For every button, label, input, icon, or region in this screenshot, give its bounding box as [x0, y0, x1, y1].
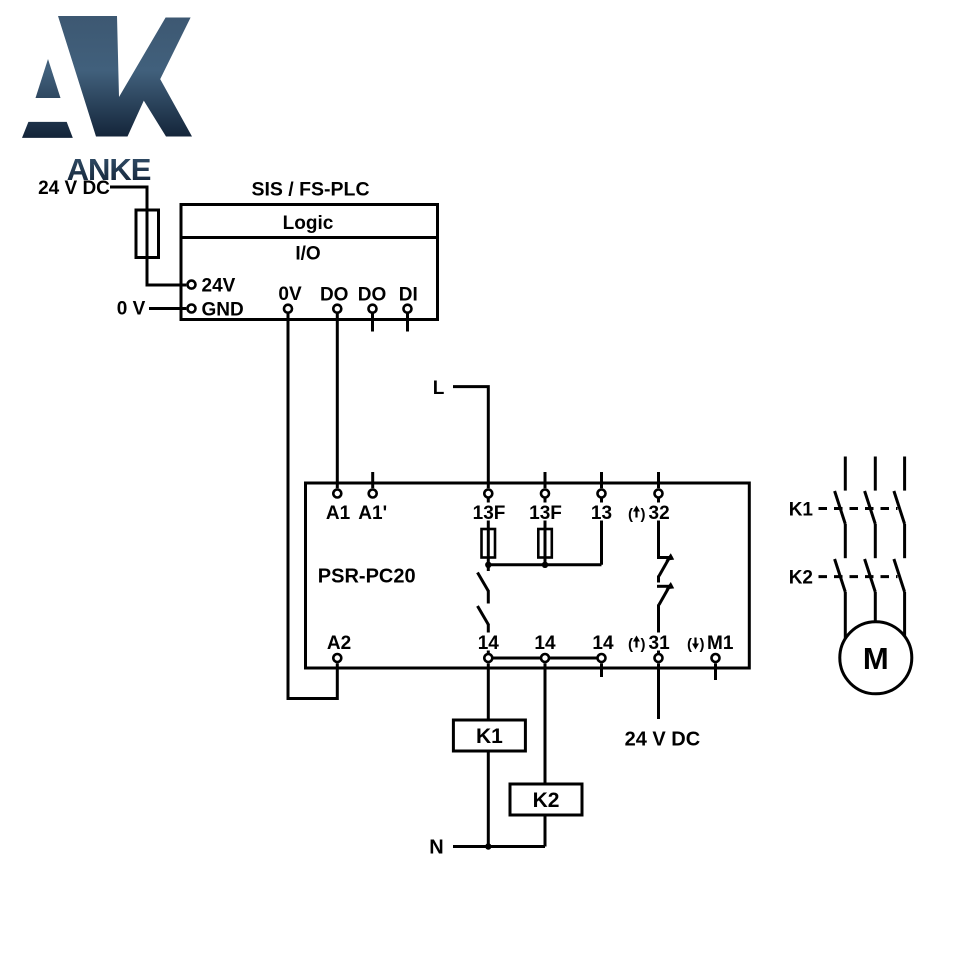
- terminal A2: [333, 654, 341, 662]
- svg-text:14: 14: [478, 633, 500, 654]
- svg-text:K2: K2: [533, 789, 560, 812]
- three-phase line 2 top: [874, 457, 877, 491]
- svg-text:GND: GND: [202, 299, 244, 320]
- fuse F1: [136, 210, 159, 258]
- svg-text:(: (: [687, 636, 692, 653]
- ANKE logo A-triangle: [36, 59, 61, 98]
- PLC box: [181, 205, 438, 320]
- svg-text:A1: A1: [326, 503, 351, 524]
- svg-text:DI: DI: [399, 284, 418, 305]
- wire fuse to 24V terminal: [147, 284, 186, 286]
- stub 13F2: [544, 472, 547, 488]
- svg-text:DO: DO: [358, 284, 387, 305]
- svg-text:K1: K1: [789, 499, 814, 520]
- aux contact 2 blade: [659, 586, 670, 605]
- terminal 24V: [188, 281, 196, 289]
- svg-text:13: 13: [591, 503, 612, 524]
- wire 13F2 to fuse: [544, 499, 547, 566]
- aux contact 1 tick: [657, 556, 673, 559]
- svg-text:N: N: [429, 837, 443, 859]
- PSR-PC20 box: [306, 483, 750, 668]
- svg-text:31: 31: [649, 633, 671, 654]
- contactor K2 blades: [835, 559, 846, 592]
- wire DO to A1: [336, 313, 339, 488]
- terminal 14c: [598, 654, 606, 662]
- terminal 32: [655, 490, 663, 498]
- phase lower segments: [844, 592, 847, 640]
- terminal 0V: [284, 305, 292, 313]
- wire 31 to 24VDC: [657, 663, 660, 719]
- terminal 31: [655, 654, 663, 662]
- wire 0V to A2 loop: [288, 313, 337, 699]
- label background plates: [471, 503, 507, 521]
- svg-text:): ): [700, 636, 705, 653]
- relay coil K1: [453, 720, 525, 751]
- contact blade 2: [478, 606, 489, 625]
- svg-text:M1: M1: [707, 633, 734, 654]
- svg-text:0V: 0V: [278, 284, 302, 305]
- contact blade 1 (safety output): [478, 573, 489, 592]
- terminal DI: [404, 305, 412, 313]
- svg-text:14: 14: [534, 633, 556, 654]
- aux contact 1 arrow: [666, 553, 675, 560]
- terminal 13: [598, 490, 606, 498]
- wire 13 down: [600, 499, 603, 565]
- terminal M1: [712, 654, 720, 662]
- wire between aux contacts: [657, 576, 660, 583]
- three-phase line 1 top: [844, 457, 847, 491]
- three-phase line 3 top: [903, 457, 906, 491]
- svg-text:0 V: 0 V: [117, 299, 146, 320]
- wire 0 V to GND terminal: [149, 307, 186, 310]
- svg-text:K2: K2: [789, 567, 813, 588]
- contactor K2 linkage: [819, 575, 898, 578]
- wire contact to 14: [487, 624, 490, 654]
- svg-text:24 V DC: 24 V DC: [625, 729, 701, 751]
- contact fixed stub: [487, 565, 490, 571]
- phase mid segments: [844, 524, 847, 558]
- svg-text:I/O: I/O: [295, 243, 320, 264]
- wire L to 13F: [453, 387, 488, 489]
- terminal A1: [333, 490, 341, 498]
- stub DI: [406, 313, 409, 332]
- svg-text:A1': A1': [358, 503, 387, 524]
- stub 32: [657, 472, 660, 488]
- wire 14a to K1: [487, 663, 490, 720]
- svg-text:DO: DO: [320, 284, 349, 305]
- junction dot N: [485, 843, 491, 849]
- contactor K1 linkage: [819, 507, 898, 510]
- relay coil K2: [510, 784, 582, 815]
- svg-text:14: 14: [592, 633, 614, 654]
- fuse F2: [482, 529, 496, 558]
- svg-text:M: M: [863, 641, 889, 676]
- svg-text:13F: 13F: [529, 503, 562, 524]
- wire N: [453, 845, 545, 848]
- svg-text:SIS / FS-PLC: SIS / FS-PLC: [251, 178, 369, 200]
- PLC logic divider: [181, 236, 438, 239]
- svg-text:24 V DC: 24 V DC: [38, 178, 110, 199]
- terminal 14a: [484, 654, 492, 662]
- stub M1: [714, 663, 717, 680]
- wire 32 down: [657, 499, 660, 557]
- junction dot: [542, 562, 548, 568]
- junction dot: [485, 562, 491, 568]
- svg-text:24V: 24V: [202, 275, 236, 296]
- wire link 14-14-14: [488, 657, 601, 660]
- svg-text:13F: 13F: [473, 503, 506, 524]
- wire 13F to fuse: [487, 499, 490, 566]
- svg-text:K1: K1: [476, 725, 503, 748]
- motor M: [840, 622, 912, 694]
- wire K2 to N: [544, 815, 547, 847]
- stub 13: [600, 472, 603, 488]
- terminal GND: [188, 305, 196, 313]
- wire link 13F-13F-13: [488, 563, 601, 566]
- ANKE logo K shape: [58, 16, 192, 137]
- stub 14c: [600, 663, 603, 677]
- wire aux contact to 31: [657, 604, 660, 653]
- aux contact 1 blade: [659, 558, 670, 577]
- aux contact 2 arrow: [666, 582, 675, 589]
- aux contact 2 tick: [657, 585, 673, 588]
- wire from 24 V DC to fuse: [110, 187, 147, 210]
- svg-text:(: (: [628, 636, 633, 653]
- wire between contacts: [487, 591, 490, 604]
- svg-text:): ): [641, 636, 646, 653]
- wire K1 to N: [487, 751, 490, 847]
- terminal 13F2: [541, 490, 549, 498]
- svg-text:PSR-PC20: PSR-PC20: [318, 565, 416, 587]
- wire 14b to K2: [544, 663, 547, 784]
- terminal DO2: [369, 305, 377, 313]
- stub DO2: [371, 313, 374, 332]
- ANKE logo A-bottom bar: [22, 122, 73, 138]
- terminal 14b: [541, 654, 549, 662]
- stub A1': [371, 472, 374, 488]
- svg-text:A2: A2: [327, 633, 351, 654]
- contactor K1 blades: [835, 491, 846, 524]
- svg-text:32: 32: [649, 503, 670, 524]
- fuse F1 wire: [146, 210, 149, 285]
- terminal 13F: [484, 490, 492, 498]
- svg-text:L: L: [433, 378, 445, 399]
- fuse F3: [538, 529, 552, 558]
- svg-text:): ): [641, 506, 646, 523]
- svg-text:Logic: Logic: [283, 213, 334, 234]
- terminal DO: [333, 305, 341, 313]
- svg-text:(: (: [628, 506, 633, 523]
- terminal A1': [369, 490, 377, 498]
